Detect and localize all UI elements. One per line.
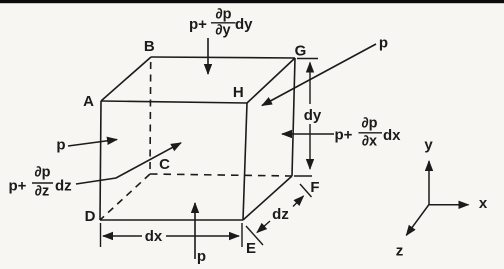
svg-text:z: z — [396, 243, 404, 260]
svg-text:∂p: ∂p — [34, 165, 50, 181]
svg-text:dx: dx — [383, 127, 401, 144]
pressure arrow p+dp/dz dz (front-left, toward C) — [76, 143, 181, 184]
svg-text:p+: p+ — [189, 16, 207, 33]
edge A-B — [101, 57, 151, 101]
axis x arrow — [429, 204, 469, 206]
svg-text:A: A — [83, 93, 94, 110]
edge A-H — [101, 101, 247, 103]
svg-text:∂p: ∂p — [361, 116, 377, 132]
svg-text:dz: dz — [272, 206, 289, 223]
svg-text:D: D — [85, 208, 96, 225]
edge B-G — [151, 57, 295, 58]
dimension dx extension tick below E — [241, 223, 243, 247]
edge D-E — [100, 219, 243, 221]
dimension dz lower arrow — [257, 221, 270, 233]
svg-text:dy: dy — [235, 16, 253, 33]
svg-text:y: y — [424, 137, 433, 154]
svg-text:p: p — [197, 248, 206, 265]
pressure arrow p (bottom face, upward) — [194, 203, 196, 259]
dimension dx extension tick below D — [100, 223, 102, 247]
edge G-F — [292, 58, 295, 176]
dimension dx right arrow — [166, 235, 239, 237]
dimension dy upper arrow — [309, 63, 311, 105]
svg-text:dx: dx — [145, 228, 163, 245]
dashed edge C-F — [150, 174, 292, 176]
svg-text:dy: dy — [304, 107, 322, 124]
edge G-H — [247, 58, 295, 103]
pressure arrow p (left face, rightward) — [68, 140, 117, 147]
svg-text:dz: dz — [55, 178, 72, 195]
edge E-F — [243, 176, 292, 220]
svg-text:∂x: ∂x — [362, 134, 377, 150]
dashed edge B-C — [149, 62, 152, 174]
dimension dy extension tick at F — [294, 175, 312, 177]
pressure arrow p (back face toward H) — [262, 44, 376, 106]
svg-text:p+: p+ — [335, 127, 353, 144]
edge A-D — [100, 101, 101, 220]
edge H-E — [243, 103, 247, 220]
svg-text:p: p — [56, 137, 65, 154]
pressure label p+dp/dz dz (left lower) — [9, 165, 72, 200]
dimension dy extension tick at G — [297, 58, 318, 60]
svg-text:C: C — [159, 156, 170, 173]
svg-text:∂p: ∂p — [215, 7, 231, 23]
svg-text:p+: p+ — [9, 178, 27, 195]
svg-text:E: E — [246, 240, 256, 257]
svg-text:∂y: ∂y — [215, 23, 230, 39]
svg-text:F: F — [310, 179, 319, 196]
pressure arrow p+dp/dx dx (right face, leftward) — [282, 133, 334, 135]
axis z arrow — [406, 205, 429, 236]
dimension dz extension tick at E — [246, 226, 263, 245]
dimension dz extension tick at F — [300, 184, 312, 197]
svg-text:H: H — [233, 84, 244, 101]
dashed edge C-D — [100, 174, 150, 220]
pressure label p+dp/dy dy (top) — [189, 7, 253, 39]
svg-text:B: B — [144, 38, 155, 55]
dimension dz upper arrow — [293, 196, 304, 207]
svg-text:x: x — [479, 195, 488, 212]
pressure label p+dp/dx dx (right) — [335, 116, 402, 150]
axis y arrow — [428, 161, 430, 205]
pressure arrow (top face, downward) — [207, 38, 209, 74]
svg-text:∂z: ∂z — [35, 184, 49, 200]
svg-text:G: G — [295, 43, 307, 60]
svg-text:p: p — [379, 35, 388, 52]
dimension dx left arrow — [103, 235, 142, 237]
dimension dy lower arrow — [309, 124, 311, 169]
